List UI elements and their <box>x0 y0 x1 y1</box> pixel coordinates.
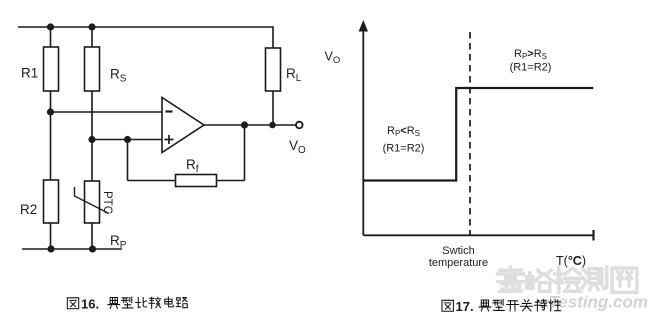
svg-text:T(°C): T(°C) <box>556 254 586 268</box>
svg-text:16.: 16. <box>81 297 99 312</box>
svg-text:(R1=R2): (R1=R2) <box>510 62 552 74</box>
svg-text:(R1=R2): (R1=R2) <box>383 143 425 155</box>
svg-text:R2: R2 <box>20 202 37 217</box>
svg-text:17.: 17. <box>456 299 474 314</box>
svg-text:temperature: temperature <box>429 257 488 269</box>
svg-text:Swtich: Swtich <box>442 245 474 257</box>
svg-text:R1: R1 <box>21 66 38 81</box>
svg-text:PTC: PTC <box>101 191 113 214</box>
